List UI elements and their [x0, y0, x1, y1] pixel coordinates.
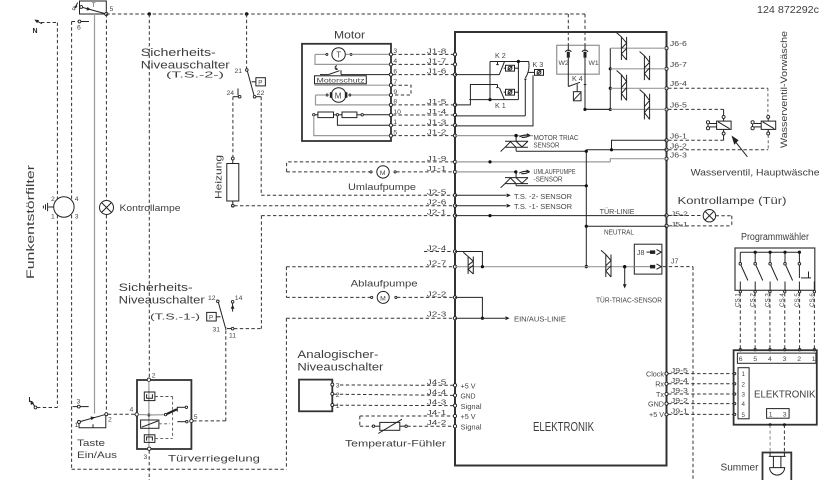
label UMLAUFPUMPE -SENSOR: [534, 167, 576, 184]
svg-text:Signal: Signal: [461, 402, 482, 411]
wire J6-7 with triac: [610, 60, 687, 69]
relay coil K1: [504, 89, 519, 95]
wire J2-4 stub: [424, 244, 453, 253]
label MOTOR TRIAC SENSOR: [534, 133, 579, 150]
svg-text:TÜR-LINIE: TÜR-LINIE: [600, 207, 635, 216]
svg-text:M: M: [380, 170, 386, 177]
svg-text:Kontrollampe (Tür): Kontrollampe (Tür): [678, 196, 787, 207]
Tuerverriegelung pin 2: [147, 373, 156, 382]
svg-text:J6-2: J6-2: [670, 141, 687, 150]
svg-text:3: 3: [783, 356, 787, 363]
wire J1-2 motor to electronics: [393, 128, 454, 137]
wire J6-4 with triac: [610, 79, 687, 88]
arrow T.S.-1-SENSOR: [455, 202, 572, 211]
svg-text:3: 3: [742, 392, 746, 399]
port J9-5 (Clock): [646, 366, 736, 379]
svg-text:Temperatur-Fühler: Temperatur-Fühler: [345, 439, 446, 450]
svg-text:T: T: [336, 51, 341, 60]
label Funkentstoerfilter (vertical): [25, 165, 37, 279]
svg-text:J2-3: J2-3: [427, 310, 447, 319]
wire: contact 22 to J2-5: [256, 97, 454, 196]
program selector to connector dashed: [739, 290, 816, 351]
ground symbol at filter: [43, 203, 53, 211]
svg-text:K 3: K 3: [533, 60, 544, 69]
wire: pin 7 line: [315, 84, 390, 86]
electronics left edge pins: [453, 53, 456, 428]
circulation pump Umlaufpumpe (M): [287, 164, 454, 193]
svg-text:3: 3: [336, 383, 340, 390]
wire analog pin2 to J4-4: [334, 394, 453, 395]
label Sicherheits-Niveauschalter (T.S.-1-): [119, 282, 205, 321]
port J9-3 (Tx): [656, 386, 736, 399]
wire J1-5 motor to electronics: [393, 97, 454, 106]
resistor R2 (motor): [334, 112, 390, 118]
svg-text:3: 3: [75, 214, 79, 221]
svg-text:1: 1: [336, 403, 340, 410]
svg-text:5: 5: [742, 412, 746, 419]
triac bank feed bus: [609, 48, 612, 111]
label Analogischer-Niveauschalter: [297, 349, 383, 374]
pressure box P (T.S.1): [207, 312, 221, 321]
svg-text:Motorschutz: Motorschutz: [317, 78, 366, 85]
svg-text:J2-6: J2-6: [427, 198, 447, 207]
svg-text:J1-6: J1-6: [427, 67, 447, 76]
svg-text:J7: J7: [671, 256, 679, 265]
indicator lamp Kontrollampe: [100, 201, 181, 215]
svg-text:1: 1: [769, 411, 773, 418]
svg-text:Umlaufpumpe: Umlaufpumpe: [348, 182, 416, 193]
tacho generator T circle: [315, 48, 389, 61]
safety level switch 2 contact 22: [253, 90, 264, 98]
wire: dashed vertical from N to interference-filter pin 2: [56, 23, 58, 200]
relay contact K2: [455, 51, 529, 75]
svg-text:K 2: K 2: [495, 51, 506, 60]
svg-text:J1-1: J1-1: [427, 164, 447, 173]
solenoid W2: [565, 14, 571, 87]
wire valve1 to J6-1: [668, 135, 724, 140]
svg-text:3: 3: [144, 454, 148, 461]
wire: vertical neutral bus (x586): [585, 150, 588, 269]
relay contact K1: [455, 85, 518, 111]
electronics ELEKTRONIK box: [455, 32, 667, 466]
svg-text:5: 5: [753, 356, 757, 363]
svg-text:GND: GND: [648, 399, 664, 408]
safety level switch 2 contact 24: [227, 89, 242, 98]
triac 3 (J6-4): [617, 71, 627, 101]
svg-text:2: 2: [51, 196, 55, 203]
interference filter (Funkentstoerfilter) circle: [51, 196, 79, 221]
motor pin 6: [389, 68, 397, 76]
svg-text:2: 2: [152, 373, 156, 380]
Motorschutz label box: [315, 76, 367, 85]
svg-text:Sicherheits-: Sicherheits-: [141, 47, 216, 59]
electronics right edge pins: [665, 47, 668, 416]
svg-text:4: 4: [75, 196, 79, 203]
small connector pin list (1-5): [738, 368, 749, 419]
svg-text:2: 2: [108, 417, 112, 424]
label ELEKTRONIK (main): [533, 420, 595, 434]
svg-text:+5 V: +5 V: [461, 412, 476, 421]
EIN/AUS-LINIE arrow: [455, 315, 566, 324]
pressure box P (T.S.2): [252, 78, 266, 87]
wire J6-6 with triac: [610, 39, 687, 48]
svg-text:1: 1: [51, 214, 55, 221]
svg-text:J9-1: J9-1: [671, 407, 688, 416]
safety level switch 2 arm: [247, 71, 254, 95]
wire analog pin1 to J4-3: [334, 404, 453, 406]
relay coil K2: [504, 65, 519, 71]
program column CS.6 stub: [813, 282, 815, 291]
wire: tacho return to pin 4: [315, 54, 389, 64]
resistor R1 (motor): [313, 112, 334, 118]
wire: bottom dashed rail: [72, 468, 287, 470]
svg-text:Tx: Tx: [656, 390, 664, 399]
label J2-1: [427, 208, 447, 217]
solenoid W1: [582, 14, 588, 84]
motor pin 10: [389, 109, 401, 117]
wire: top dashed rail from pin 5 to W-box drop: [106, 12, 585, 15]
label +5 V at J4 416: [461, 412, 476, 421]
contact 3 (terminal): [73, 399, 89, 409]
svg-text:J9-5: J9-5: [671, 366, 688, 375]
label Programmwaehler: [741, 232, 810, 243]
motor M circle: [316, 88, 390, 103]
Tuerverriegelung pin 4: [130, 407, 139, 417]
wire valve2 to J6-2: [668, 135, 768, 150]
svg-text:14: 14: [235, 295, 243, 302]
label Sicherheits-Niveauschalter (T.S.-2-): [141, 47, 230, 80]
svg-text:P: P: [258, 80, 262, 87]
wires to buzzer: [769, 423, 786, 452]
svg-text:L: L: [29, 397, 34, 404]
relay contact K4: [568, 74, 610, 111]
wire: Tuerverriegelung pin3 dashed down: [148, 450, 150, 480]
wire J1-3 motor to electronics: [393, 117, 454, 126]
svg-text:NEUTRAL: NEUTRAL: [604, 228, 634, 237]
svg-text:J6-6: J6-6: [670, 39, 687, 48]
drain pump Ablaufpumpe (M): [286, 279, 453, 304]
label J6-3: [670, 151, 687, 160]
document number 124 872292c: [757, 5, 819, 16]
wire J2-4 internal: [455, 252, 482, 267]
svg-text:J9-3: J9-3: [671, 386, 688, 395]
program switch CS.2: [754, 252, 763, 290]
pointer arrow to valve 1: [732, 136, 748, 157]
label J4-5: [427, 377, 447, 386]
svg-text:3: 3: [783, 411, 787, 418]
svg-text:Ein/Aus: Ein/Aus: [77, 450, 117, 461]
wire J1-8 motor to electronics: [393, 46, 454, 55]
label J4-4: [427, 387, 447, 396]
door lock Tuerverriegelung box: [137, 380, 191, 449]
door triac at J2-7: [463, 252, 473, 274]
svg-text:12: 12: [208, 295, 216, 302]
wire: Taste pin2 to Tuerverriegelung pin 4: [108, 413, 135, 415]
program switch CS.1: [739, 252, 748, 290]
label ELEKTRONIK (small): [754, 390, 816, 401]
svg-text:Ablaufpumpe: Ablaufpumpe: [351, 279, 418, 290]
wire: internal bus from K-relays (dark): [488, 62, 491, 102]
svg-text:Taste: Taste: [77, 438, 105, 449]
svg-text:Türverriegelung: Türverriegelung: [168, 454, 260, 465]
label J4-2: [427, 418, 447, 427]
buzzer symbol: [769, 453, 786, 476]
svg-text:22: 22: [257, 90, 265, 97]
svg-text:3: 3: [77, 399, 81, 406]
label J4-1: [427, 408, 447, 417]
Tuerverriegelung pin 5: [190, 414, 198, 423]
umlaufpumpe sensor triac: [455, 170, 586, 188]
svg-text:24: 24: [227, 90, 235, 97]
svg-text:K 1: K 1: [495, 101, 506, 110]
svg-text:Sicherheits-: Sicherheits-: [119, 282, 193, 294]
wire J1-2 to motor triac: [455, 134, 533, 138]
wire J1-9 umlaufpumpe branch: [287, 154, 454, 172]
svg-text:J6-3: J6-3: [670, 151, 687, 160]
svg-text:J1-3: J1-3: [427, 117, 447, 126]
svg-text:J6-4: J6-4: [670, 79, 687, 88]
wire analog pin3 to J4-5: [340, 384, 453, 386]
wire: Heizung bottom to J2-6: [233, 206, 454, 207]
wire J6-5 to valve 1: [668, 109, 724, 115]
label J2-6: [427, 198, 447, 207]
safety level switch 1 contact 12: [208, 295, 219, 303]
svg-text:J2-2: J2-2: [427, 289, 447, 298]
wire J1-9 internal (grey): [455, 159, 667, 164]
motor pin 1: [389, 119, 397, 127]
svg-text:P: P: [209, 315, 213, 322]
svg-text:W1: W1: [589, 60, 599, 67]
wire J6-2 internal: [586, 141, 687, 151]
svg-text:1: 1: [75, 422, 79, 429]
svg-text:J4-2: J4-2: [427, 418, 447, 427]
TUER-TRIAC-SENSOR arrow: [596, 268, 662, 305]
svg-text:5: 5: [110, 6, 114, 13]
svg-text:Wasserventil-Vorwäsche: Wasserventil-Vorwäsche: [779, 31, 790, 148]
motor pin 3: [389, 48, 397, 56]
svg-text:J4-3: J4-3: [427, 398, 447, 407]
svg-text:EIN/AUS-LINIE: EIN/AUS-LINIE: [514, 315, 566, 324]
label Temperatur-Fuehler: [345, 439, 446, 450]
svg-text:T: T: [92, 2, 96, 9]
label Tuerverriegelung: [168, 454, 260, 465]
svg-text:Kontrollampe: Kontrollampe: [120, 203, 181, 214]
wire: filter pins 1/3 dashed continue down: [56, 215, 58, 408]
wire: dashed vertical from pin 5 to Taste pin 2 (Kontrollampe branch): [105, 14, 107, 414]
analog level switch box: [299, 380, 340, 412]
wire J6-5 with triac: [586, 100, 687, 109]
label J5-2: [671, 211, 688, 218]
program switch CS.4: [784, 252, 793, 290]
label J5-1: [671, 221, 688, 228]
svg-text:-SENSOR: -SENSOR: [534, 175, 563, 184]
svg-text:J6-5: J6-5: [670, 100, 687, 109]
svg-text:Summer: Summer: [721, 463, 760, 474]
TUER-LINIE wire: [455, 207, 667, 217]
svg-text:6: 6: [739, 356, 743, 363]
safety level switch 2 contact 21: [235, 68, 249, 75]
svg-text:J2-7: J2-7: [427, 259, 447, 268]
mains terminal N with arrow: [33, 20, 58, 35]
wire: coil bus K2-K1: [517, 62, 519, 100]
motor pin 7: [389, 79, 397, 87]
thermal cutout switch T (pins 4-5): [72, 1, 114, 16]
program switch CS.3: [769, 252, 778, 290]
wire: dashed vertical from contact 6 to bottom rail: [71, 22, 73, 470]
svg-text:Programmwähler: Programmwähler: [741, 232, 810, 243]
svg-text:Niveauschalter: Niveauschalter: [297, 362, 383, 374]
Tuerverriegelung pin 3: [144, 447, 151, 461]
svg-text:4: 4: [742, 401, 746, 408]
node: junction x149 on top rail / drop to Tuerverriegelung pin 2: [148, 14, 150, 380]
safety level switch 1 contact 31: [213, 327, 226, 334]
svg-text:+5 V: +5 V: [649, 410, 664, 419]
motor protection switch (Motorschutz): [320, 66, 389, 75]
indicator lamp (Tuer): [668, 210, 732, 226]
motor pin 8: [389, 99, 397, 107]
program selector bus: [740, 251, 801, 254]
power switch Taste Ein/Aus: [75, 413, 113, 429]
arrow T.S.-2-SENSOR: [455, 192, 572, 201]
svg-text:Funkentstörfilter: Funkentstörfilter: [25, 165, 37, 279]
Tuerverriegelung internals: [138, 381, 188, 447]
svg-text:J1-9: J1-9: [427, 154, 447, 163]
motor box: [302, 44, 391, 141]
svg-text:J1-4: J1-4: [427, 107, 447, 116]
motor pin 4: [389, 58, 397, 66]
label GND at J4 395.4: [461, 392, 476, 401]
svg-text:J9-4: J9-4: [671, 376, 688, 385]
svg-text:31: 31: [213, 327, 221, 334]
buzzer Summer box: [763, 453, 792, 480]
wire: contact 11 to J2-1: [234, 216, 453, 329]
svg-text:GND: GND: [461, 392, 476, 401]
svg-text:J5-1: J5-1: [671, 221, 688, 228]
label Wasserventil-Vorwaesche (vertical): [779, 31, 790, 148]
wire: motor return to pin 8: [316, 95, 390, 105]
program switch CS.5 (with stop): [798, 252, 811, 290]
wire J1-6 motor to electronics: [393, 67, 454, 76]
buzzer connector 1-3: [767, 409, 790, 419]
wire: solid grey mains line from T-switch to Taste Ein/Aus: [94, 13, 96, 414]
svg-text:Wasserventil, Hauptwäsche: Wasserventil, Hauptwäsche: [691, 168, 820, 179]
mains terminal L with arrow: [29, 397, 58, 409]
label +5 V at J4 385.3: [461, 382, 476, 391]
motor pin 5: [389, 129, 397, 137]
svg-text:J4-4: J4-4: [427, 387, 447, 396]
svg-text:J1-5: J1-5: [427, 97, 447, 106]
relay contact K3: [455, 60, 543, 116]
triac 1 (J6-6): [617, 33, 627, 60]
svg-text:Analogischer-: Analogischer-: [297, 349, 378, 361]
wire J2-3 ein/aus line: [286, 310, 453, 470]
svg-text:+5 V: +5 V: [461, 382, 476, 391]
svg-text:J4-1: J4-1: [427, 408, 447, 417]
program selector box: [735, 248, 815, 290]
label Signal at J4 405.6: [461, 402, 482, 411]
door line grey wire (J2-7): [455, 265, 634, 268]
svg-text:T.S. -2- SENSOR: T.S. -2- SENSOR: [514, 192, 572, 201]
display connector 6..1: [737, 353, 816, 363]
svg-text:J2-1: J2-1: [427, 208, 447, 217]
svg-text:5: 5: [194, 414, 198, 421]
svg-text:Signal: Signal: [461, 422, 482, 431]
wire: contact 31 down to Tuerverriegelung pin 5: [193, 331, 226, 421]
contact 6 (terminal): [72, 20, 89, 31]
svg-text:T.S. -1- SENSOR: T.S. -1- SENSOR: [514, 202, 572, 211]
wire J6-4 to valve 2: [668, 88, 768, 115]
svg-text:J2-5: J2-5: [427, 187, 447, 196]
svg-text:M: M: [335, 91, 342, 100]
wire J2-2 internal: [455, 297, 484, 319]
svg-text:Rx: Rx: [655, 380, 664, 389]
svg-text:SENSOR: SENSOR: [534, 141, 560, 150]
display electronics box: [734, 350, 817, 425]
relay coil K4: [573, 84, 581, 101]
safety level switch 1 contact 14: [231, 295, 243, 312]
svg-text:124 872292c: 124 872292c: [757, 5, 819, 16]
svg-text:J4-5: J4-5: [427, 377, 447, 386]
svg-text:11: 11: [229, 333, 236, 340]
svg-text:J2-4: J2-4: [427, 244, 447, 253]
wire J6-1 internal: [612, 132, 687, 150]
svg-text:4: 4: [768, 356, 772, 363]
wire: resistor left to pin 5: [314, 116, 390, 136]
label Taste Ein/Aus: [77, 438, 117, 461]
motor triac: [501, 137, 587, 152]
svg-text:J6-1: J6-1: [670, 132, 687, 141]
relay coil K3: [455, 70, 544, 126]
svg-text:J1-7: J1-7: [427, 56, 447, 65]
label Motor: [334, 30, 365, 42]
svg-text:2: 2: [797, 356, 801, 363]
svg-text:J1-8: J1-8: [427, 46, 447, 55]
label J7 and dashed wire: [663, 256, 693, 480]
svg-text:1: 1: [812, 356, 816, 363]
svg-text:K 4: K 4: [572, 74, 583, 83]
svg-text:Heizung: Heizung: [214, 155, 224, 199]
svg-text:6: 6: [77, 25, 81, 32]
wire J2-7 to drain pump loop: [286, 259, 453, 298]
svg-text:1: 1: [742, 371, 746, 378]
svg-text:TÜR-TRIAC-SENSOR: TÜR-TRIAC-SENSOR: [596, 296, 662, 305]
svg-text:Niveauschalter: Niveauschalter: [119, 295, 205, 307]
svg-text:J5-2: J5-2: [671, 211, 688, 218]
wire J1-4 motor to electronics: [393, 107, 454, 116]
svg-text:Clock: Clock: [646, 369, 664, 378]
triac 2 (J6-7): [640, 52, 650, 81]
svg-text:(T.S.-2-): (T.S.-2-): [166, 71, 225, 80]
svg-text:J9-2: J9-2: [671, 396, 688, 405]
port J9-1 (+5 V): [649, 407, 736, 420]
svg-text:J6-7: J6-7: [670, 60, 687, 69]
program selector CS labels: [735, 293, 816, 307]
water valve 2 (Vorwaesche): [751, 115, 776, 135]
door triac (TUER) mid: [601, 250, 611, 277]
label Kontrollampe (Tuer): [678, 196, 787, 207]
svg-text:2: 2: [336, 392, 340, 399]
motor pin 9: [389, 89, 397, 97]
svg-text:J1-2: J1-2: [427, 128, 447, 137]
safety level switch 1 arm: [218, 303, 225, 328]
label Signal at J4 426.2: [461, 422, 482, 431]
triac 4 (J6-5): [640, 90, 650, 120]
port J9-2 (GND): [648, 396, 736, 409]
svg-text:J8: J8: [637, 248, 645, 257]
svg-text:Motor: Motor: [334, 30, 365, 42]
wire J1-7 motor to electronics: [393, 56, 454, 65]
safety level switch 1 contact 11: [227, 327, 236, 339]
